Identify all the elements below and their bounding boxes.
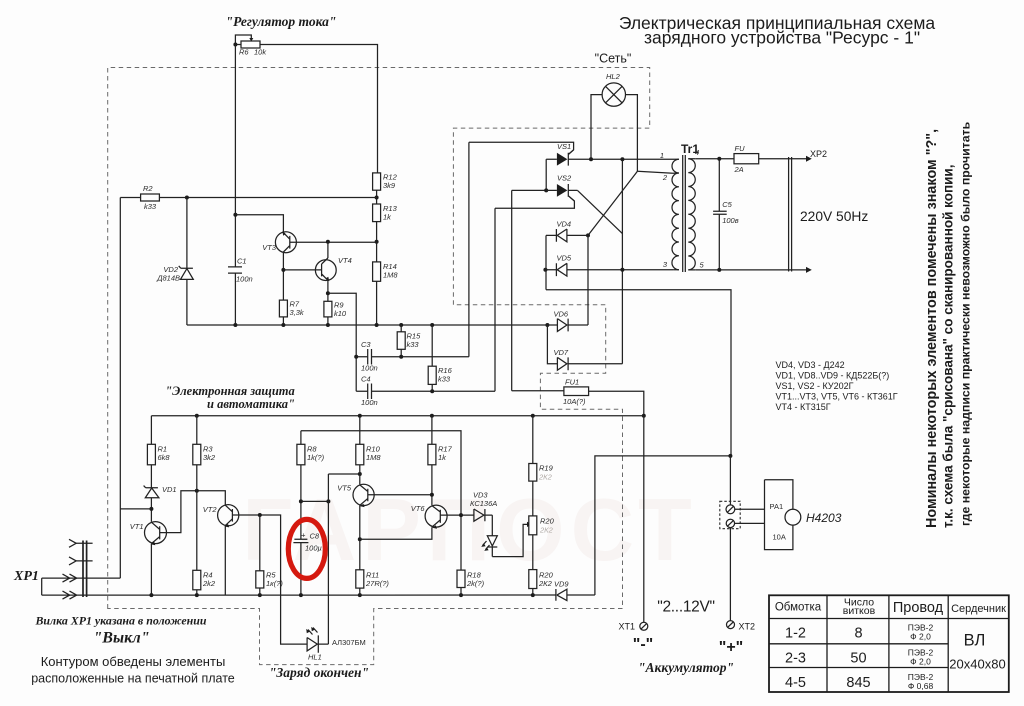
- transistor VT6: [425, 505, 447, 527]
- svg-text:ВЛ: ВЛ: [964, 632, 986, 650]
- thyristor VS1: [557, 153, 568, 166]
- wire R14 to bus: [376, 281, 378, 325]
- resistor R20 lower: [529, 570, 537, 589]
- capacitor C8: [293, 539, 308, 595]
- wire pot right to R12: [260, 45, 378, 173]
- resistor R9: [324, 301, 332, 317]
- svg-text:220V 50Hz: 220V 50Hz: [800, 209, 868, 224]
- svg-text:"-": "-": [633, 636, 654, 653]
- svg-text:4: 4: [695, 148, 699, 157]
- resistor R12: [373, 173, 381, 190]
- svg-text:VT2: VT2: [203, 505, 218, 514]
- svg-text:Д814В: Д814В: [156, 274, 180, 283]
- svg-text:3,3k: 3,3k: [290, 308, 305, 317]
- resistor R2: [141, 194, 160, 201]
- svg-text:100n: 100n: [236, 275, 253, 284]
- wire VT1 emitter to bus: [150, 544, 152, 596]
- svg-text:Обмотка: Обмотка: [775, 602, 822, 614]
- mains separator double line: [789, 157, 792, 272]
- terminal XT1: [640, 622, 648, 630]
- transistor VT4: [315, 260, 336, 281]
- svg-text:Ф 2,0: Ф 2,0: [910, 657, 931, 667]
- plug XP1: [83, 541, 87, 598]
- svg-text:Номиналы некоторых элементов п: Номиналы некоторых элементов помечены зн…: [924, 129, 940, 528]
- svg-text:R19: R19: [539, 464, 554, 473]
- transistor VT2: [218, 505, 239, 526]
- svg-text:ГАРПОСТ: ГАРПОСТ: [242, 480, 697, 579]
- svg-text:VT1...VT3, VT5, VT6 - КТ361Г: VT1...VT3, VT5, VT6 - КТ361Г: [776, 392, 898, 402]
- wire lamp right lead: [626, 95, 638, 172]
- lower bus left segment: [42, 594, 556, 596]
- svg-text:VD9: VD9: [554, 580, 569, 589]
- transistor VT5: [353, 484, 374, 505]
- svg-text:"Выкл": "Выкл": [93, 630, 149, 647]
- winding table: [769, 595, 1009, 692]
- wire terminals to PA1: [735, 509, 765, 523]
- wire lamp left lead: [591, 95, 602, 160]
- svg-text:10k: 10k: [254, 48, 267, 57]
- resistor R7: [279, 300, 287, 317]
- svg-text:k10: k10: [334, 309, 347, 318]
- diode VD5: [545, 263, 674, 276]
- terminal XT2: [727, 621, 735, 629]
- wire to XT2: [729, 528, 731, 621]
- svg-text:FU: FU: [735, 144, 746, 153]
- resistor R10: [359, 416, 361, 485]
- red ellipse mark: [288, 519, 325, 578]
- wire pin4 out: [695, 158, 806, 160]
- svg-text:k33: k33: [144, 202, 157, 211]
- wire to XT1: [643, 416, 645, 623]
- ammeter PA1: [765, 480, 793, 550]
- wire VS1-VS2 anode link: [545, 159, 547, 190]
- svg-text:расположенные на печатной плат: расположенные на печатной плате: [31, 672, 235, 686]
- svg-text:VT6: VT6: [411, 504, 426, 513]
- svg-text:Сердечник: Сердечник: [951, 603, 1006, 615]
- wire VS1 gate run: [469, 142, 574, 154]
- potentiometer R20: [529, 516, 537, 535]
- wire left column XP1 feed: [119, 198, 121, 579]
- svg-text:2К2: 2К2: [538, 473, 553, 482]
- wire vertical to C4 line: [494, 208, 496, 391]
- svg-text:100n: 100n: [361, 364, 378, 373]
- svg-text:VS1: VS1: [557, 142, 571, 151]
- svg-text:VS2: VS2: [557, 174, 572, 183]
- diode VD7: [557, 357, 622, 370]
- svg-text:FU1: FU1: [565, 378, 579, 387]
- svg-text:2A: 2A: [734, 165, 744, 174]
- svg-text:R6: R6: [239, 48, 249, 57]
- svg-text:1k: 1k: [438, 453, 447, 462]
- capacitor C4: [356, 384, 495, 400]
- svg-text:АЛ307БМ: АЛ307БМ: [332, 638, 366, 647]
- svg-text:КС136А: КС136А: [470, 499, 497, 508]
- svg-text:C4: C4: [361, 375, 371, 384]
- transistor VT1: [145, 522, 167, 544]
- lamp HL2: [602, 83, 625, 106]
- svg-text:k33: k33: [407, 340, 420, 349]
- svg-text:1: 1: [660, 151, 664, 160]
- wire HL1 right riser: [318, 474, 328, 644]
- fuse FU: [734, 154, 759, 164]
- resistor R14: [373, 262, 381, 281]
- svg-text:"Регулятор тока": "Регулятор тока": [226, 14, 337, 29]
- wire VS2 gate run: [495, 196, 574, 208]
- svg-text:1-2: 1-2: [785, 626, 806, 642]
- svg-text:Ф 0,68: Ф 0,68: [908, 681, 934, 691]
- svg-text:PA1: PA1: [770, 502, 784, 511]
- capacitor C5: [713, 159, 727, 270]
- svg-text:20х40х80: 20х40х80: [949, 657, 1005, 672]
- svg-text:ХТ2: ХТ2: [739, 622, 756, 632]
- svg-text:зарядного устройства "Ресурс -: зарядного устройства "Ресурс - 1": [644, 28, 920, 48]
- svg-text:8: 8: [854, 626, 862, 642]
- svg-text:50: 50: [850, 651, 866, 667]
- svg-text:VT3: VT3: [262, 243, 277, 252]
- svg-text:VD1: VD1: [162, 485, 177, 494]
- svg-text:HL2: HL2: [606, 72, 621, 81]
- wire plus rail under transformer: [546, 290, 731, 456]
- diode VD3: [461, 509, 492, 521]
- svg-text:VT4: VT4: [338, 256, 352, 265]
- resistor R18: [457, 570, 465, 587]
- wire minus riser to ammeter line: [595, 456, 731, 595]
- svg-text:2k(?): 2k(?): [466, 579, 485, 588]
- wire R2 row: [120, 197, 376, 199]
- svg-text:C3: C3: [361, 340, 371, 349]
- capacitor C1: [228, 267, 242, 273]
- svg-text:6k8: 6k8: [158, 453, 171, 462]
- svg-text:VD4: VD4: [557, 220, 572, 229]
- svg-text:3k9: 3k9: [383, 181, 396, 190]
- svg-text:где некоторые надписи практиче: где некоторые надписи практически невозм…: [959, 121, 973, 526]
- potentiometer R6: [241, 41, 260, 48]
- wire VT5 emitter down: [359, 505, 361, 570]
- svg-text:VD4, VD3 - Д242: VD4, VD3 - Д242: [776, 360, 845, 370]
- resistor R5: [259, 515, 261, 595]
- svg-text:1М8: 1М8: [383, 271, 398, 280]
- svg-text:VT1: VT1: [130, 522, 144, 531]
- wire R12-R13: [376, 190, 378, 204]
- svg-text:т.к. схема была "срисована" со: т.к. схема была "срисована" со сканирова…: [941, 165, 956, 528]
- svg-text:"2...12V": "2...12V": [657, 599, 714, 616]
- svg-text:"Аккумулятор": "Аккумулятор": [638, 660, 734, 675]
- transformer Tr1 secondary: [688, 159, 695, 270]
- svg-text:витков: витков: [843, 605, 876, 617]
- wire VT2 collector to R5 and HL1: [260, 515, 307, 644]
- wire VT1 collector up and over: [167, 491, 226, 533]
- svg-text:XP2: XP2: [810, 149, 827, 159]
- wire pin2: [637, 171, 673, 173]
- capacitor C3: [356, 349, 469, 365]
- second bus: [301, 431, 461, 570]
- resistor R4: [193, 570, 201, 590]
- svg-text:27R(?): 27R(?): [365, 579, 389, 588]
- resistor R11: [356, 570, 364, 588]
- svg-text:"Электронная защита: "Электронная защита: [165, 384, 295, 398]
- svg-text:2k2: 2k2: [202, 579, 216, 588]
- svg-text:ХТ1: ХТ1: [618, 622, 635, 632]
- svg-text:ХР1: ХР1: [13, 569, 39, 584]
- svg-text:k33: k33: [438, 375, 451, 384]
- wire emitter link VT5-VT6: [360, 527, 432, 539]
- wire vertical to C3 line: [468, 142, 470, 356]
- wire VT4 emitter to mid vertical: [328, 293, 356, 391]
- transformer core: [683, 155, 686, 272]
- svg-text:VD6: VD6: [554, 310, 569, 319]
- svg-text:+: +: [301, 531, 306, 540]
- wire VD6-VD7 left link: [547, 325, 557, 364]
- svg-text:"+": "+": [719, 639, 744, 656]
- svg-text:Вилка ХР1 указана в положении: Вилка ХР1 указана в положении: [34, 614, 206, 628]
- svg-text:и автоматика": и автоматика": [207, 397, 295, 411]
- wire anode feed: [512, 190, 547, 390]
- resistor R8: [300, 431, 302, 540]
- wire C8 node link: [301, 500, 329, 502]
- wire VD8 to R20 wiper: [492, 524, 527, 556]
- svg-text:2-3: 2-3: [785, 651, 806, 667]
- resistor R17: [431, 416, 433, 506]
- connector terminal upper: [726, 505, 735, 514]
- svg-text:2: 2: [662, 173, 668, 182]
- resistor R3: [196, 416, 198, 571]
- wire pin5 out: [695, 269, 806, 271]
- svg-text:C5: C5: [722, 200, 732, 209]
- resistor R16: [431, 325, 433, 391]
- svg-text:C8: C8: [310, 532, 320, 541]
- dashed PCB outline: [108, 68, 650, 665]
- svg-text:R20: R20: [540, 517, 555, 526]
- svg-text:1k: 1k: [383, 213, 392, 222]
- svg-text:100в: 100в: [722, 216, 739, 225]
- svg-text:1М8: 1М8: [366, 453, 381, 462]
- svg-text:"Сеть": "Сеть": [595, 52, 632, 66]
- wire VT5 top link: [328, 473, 359, 475]
- zener VD1: [144, 486, 159, 522]
- svg-text:10A(?): 10A(?): [563, 397, 586, 406]
- svg-text:HL1: HL1: [308, 653, 322, 662]
- svg-text:Провод: Провод: [893, 600, 944, 616]
- svg-text:C1: C1: [237, 257, 247, 266]
- wire VT4 emitter: [327, 280, 329, 301]
- lower main bus: [151, 415, 643, 417]
- wire VD4 node down to VD6: [587, 235, 589, 325]
- thyristor VS2: [557, 184, 568, 197]
- svg-text:VD7: VD7: [554, 348, 569, 357]
- svg-text:4-5: 4-5: [785, 675, 806, 691]
- transformer Tr1 primary: [672, 159, 679, 270]
- svg-text:100µ: 100µ: [305, 544, 322, 553]
- zener VD2: [179, 198, 194, 326]
- svg-text:"Заряд окончен": "Заряд окончен": [269, 665, 369, 680]
- svg-text:VT4 - КТ315Г: VT4 - КТ315Г: [776, 402, 831, 412]
- svg-text:2К2: 2К2: [539, 526, 554, 535]
- svg-text:Ф 2,0: Ф 2,0: [910, 632, 931, 642]
- wire VT4 collector to node: [327, 242, 329, 258]
- resistor R15: [400, 325, 402, 357]
- wire diagonal from VS2: [578, 190, 623, 233]
- svg-text:VT5: VT5: [337, 484, 352, 493]
- resistor R1: [150, 416, 152, 488]
- diode VD6: [547, 319, 588, 332]
- transformer tap 2 wire: [673, 172, 679, 174]
- svg-text:R2: R2: [143, 184, 153, 193]
- svg-text:Контуром обведены элементы: Контуром обведены элементы: [41, 654, 226, 669]
- wire long vertical right: [621, 159, 623, 364]
- svg-text:100n: 100n: [361, 398, 378, 407]
- transistor VT3: [275, 232, 296, 253]
- wire diagonal to VD4 node: [588, 171, 637, 235]
- diode VD4: [546, 229, 588, 242]
- LED HL1: [307, 635, 318, 652]
- fuse FU1: [564, 387, 589, 396]
- svg-text:VD1, VD8..VD9 - КД522Б(?): VD1, VD8..VD9 - КД522Б(?): [776, 371, 890, 381]
- wire connector upper: [729, 456, 731, 505]
- resistor R19: [532, 416, 534, 516]
- svg-text:2К2: 2К2: [538, 579, 553, 588]
- wire VT3 bottom to R7: [282, 252, 284, 300]
- resistor R13: [373, 204, 381, 222]
- wire VD4/VD5 left link: [545, 235, 547, 289]
- wire VT1 base feed: [120, 508, 151, 510]
- svg-text:VD5: VD5: [557, 254, 572, 263]
- svg-text:1к(?): 1к(?): [266, 579, 283, 588]
- connector dashed box: [720, 501, 740, 528]
- LED VD8: [487, 515, 497, 557]
- svg-text:3k2: 3k2: [203, 453, 216, 462]
- wire pot left down to C1: [234, 45, 236, 326]
- main mid bus: [187, 324, 548, 326]
- diode VD9: [556, 589, 595, 601]
- svg-text:10A: 10A: [773, 533, 786, 542]
- svg-text:1k(?): 1k(?): [307, 453, 325, 462]
- svg-text:VS1, VS2 - КУ202Г: VS1, VS2 - КУ202Г: [776, 381, 854, 391]
- wire R13-R14: [376, 222, 378, 262]
- node pot left: [233, 43, 237, 47]
- node C1 top / VT3 base wire: [233, 213, 237, 217]
- connector terminal lower: [726, 519, 734, 527]
- wire VT2 emitter down: [224, 526, 226, 596]
- svg-text:Н4203: Н4203: [806, 511, 842, 525]
- svg-text:845: 845: [846, 675, 870, 691]
